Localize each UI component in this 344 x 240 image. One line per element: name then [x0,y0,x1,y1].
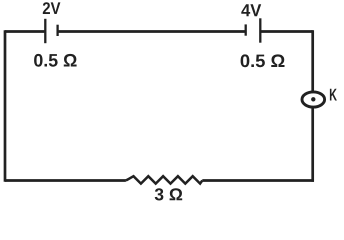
wire: top-right segment from cell V2 to top-right corner [260,30,312,33]
wire: bottom-right segment from corner to resistor [202,179,314,182]
label 3 Ω (resistor value) [155,188,183,200]
key K (plug key: ellipse with centre dot) [302,92,325,107]
wire: right side lower segment from key to bottom-right corner [311,107,314,182]
label K [330,89,337,101]
battery V2 (4V cell): long plate [259,18,261,42]
wire: top middle segment between cell V1 and cell V2 [58,30,246,33]
battery V2 (4V cell): short plate [245,24,247,35]
label 4V [241,4,261,16]
wire: right side upper segment down to key [311,30,314,91]
wire: left side segment [4,30,7,182]
wire: bottom-left segment from resistor to bottom-left corner [5,179,126,182]
label 0.5 Ω (internal resistance of V1) [34,54,77,67]
resistor R1 zigzag [126,176,202,183]
battery V1 (2V cell): long plate [44,19,46,43]
battery V1 (2V cell): short plate [56,25,58,36]
label 2V [43,2,61,14]
wire: top-left segment from left corner to cell V1 [5,30,45,33]
label 0.5 Ω (internal resistance of V2) [241,54,285,67]
